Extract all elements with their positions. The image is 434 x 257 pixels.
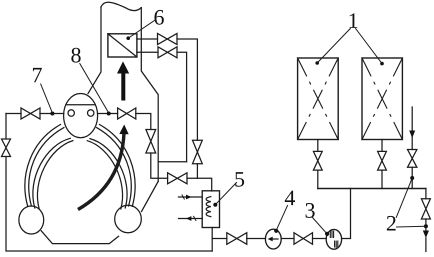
curved arrow head	[119, 125, 128, 135]
manifold header	[318, 188, 426, 190]
wire machine right to valve	[98, 113, 118, 115]
leader for 2 lower	[397, 225, 426, 228]
valve mid header	[168, 173, 187, 184]
wire inlet valve to manifold	[411, 167, 413, 188]
valve vertical at x150.8	[146, 130, 156, 154]
valve right inlet	[408, 150, 417, 168]
pump P4	[265, 229, 281, 249]
pump P4 inner arrow	[271, 238, 279, 240]
wire valve7 to machine	[40, 113, 64, 115]
leader for 6	[128, 21, 154, 39]
valve under right tank	[378, 151, 387, 170]
tank 1 left X diagonals	[298, 58, 339, 140]
wire exchanger bottom	[211, 228, 213, 252]
wire header to exchanger	[187, 178, 212, 191]
valve V7	[21, 108, 40, 119]
svg-text:2: 2	[386, 210, 397, 235]
wire outlet valve down	[425, 219, 427, 231]
exchanger inlet arrow	[179, 196, 203, 198]
filter box U6 diagonal	[108, 34, 137, 57]
pipe box6 top outlet	[137, 38, 158, 40]
tank 1 right	[362, 58, 402, 140]
valve vertical at x197	[193, 140, 203, 163]
wire pump3 to riser	[342, 189, 351, 239]
wire pump4 to valve	[281, 238, 294, 240]
furnace duct left edge	[88, 7, 101, 94]
valve (box6 bottom)	[158, 47, 177, 58]
wire x197 valve to header	[196, 164, 198, 179]
wire valve down to y178 header	[151, 153, 168, 178]
main horizontal pipe left	[6, 113, 21, 115]
wire cross header y161.7	[158, 161, 186, 163]
leader for 8	[80, 64, 109, 114]
wire to pump 4	[247, 238, 266, 240]
tank 1 left	[298, 58, 339, 140]
svg-text:6: 6	[154, 5, 165, 30]
svg-text:3: 3	[304, 198, 315, 223]
wire to manifold	[317, 170, 319, 188]
heat exchanger E5 box	[202, 191, 219, 228]
leader for 3	[313, 218, 328, 234]
svg-text:1: 1	[348, 8, 359, 33]
leg inner-right	[87, 141, 122, 209]
leader for 2 upper	[396, 179, 412, 218]
svg-text:7: 7	[32, 62, 43, 87]
wire left tank outlet	[317, 140, 319, 152]
leg outer-right	[100, 125, 136, 207]
leg inner-left	[33, 138, 70, 208]
right inlet line	[411, 107, 413, 150]
valve (box6 top)	[158, 34, 178, 45]
valve right outlet	[421, 199, 430, 219]
wire to manifold	[381, 170, 383, 188]
wheel right	[115, 205, 142, 232]
exchanger outlet arrow	[179, 218, 203, 220]
thick curved arrow	[78, 133, 124, 210]
node on inlet line	[410, 176, 414, 180]
valve right of machine	[118, 108, 136, 119]
wheel left	[19, 206, 44, 234]
leader for 5	[215, 183, 236, 205]
leader for 1 left	[317, 29, 350, 64]
leader for 4	[276, 206, 287, 231]
pump P3 vanes	[330, 231, 333, 238]
leader for 7	[41, 84, 53, 113]
left riser pipe	[5, 114, 7, 140]
valve bottom 1	[227, 233, 247, 245]
outlet tail	[425, 238, 427, 252]
leg outer-left	[25, 125, 61, 207]
machine eye left	[68, 110, 74, 116]
pipe box6 bottom outlet	[137, 51, 158, 53]
wire bottom outlet down	[177, 52, 187, 161]
wire right tank outlet	[381, 140, 383, 152]
wire to pump 3	[313, 238, 327, 240]
valve left riser	[2, 139, 11, 157]
wire left riser to bottom	[6, 157, 212, 252]
node on outlet line	[424, 224, 428, 228]
wire to down corner	[136, 114, 151, 130]
svg-text:5: 5	[234, 167, 245, 192]
thick up arrow into box 6	[117, 61, 129, 100]
furnace duct right edge	[141, 8, 158, 182]
right outlet line	[425, 189, 427, 199]
wire top outlet to right	[177, 39, 197, 140]
pump P3	[326, 229, 341, 249]
machine eye right	[88, 110, 94, 116]
machine frame bottom	[41, 231, 118, 244]
furnace duct torn top edge	[101, 2, 141, 10]
machine frame right diagonal	[142, 181, 159, 211]
right inlet arrowhead	[409, 131, 415, 139]
machine head ellipse	[64, 94, 98, 138]
tank 1 right X diagonals	[362, 58, 402, 140]
leader for 1 right	[356, 29, 382, 64]
svg-text:8: 8	[71, 42, 82, 67]
machine head chord	[66, 104, 95, 106]
wire bottom pipe branch	[212, 238, 227, 240]
outlet arrowhead	[423, 231, 429, 239]
valve bottom 2	[294, 233, 313, 245]
svg-text:4: 4	[284, 185, 295, 210]
filter box U6	[108, 34, 137, 57]
valve under left tank	[313, 151, 322, 170]
heat exchanger coil wave	[206, 197, 211, 217]
